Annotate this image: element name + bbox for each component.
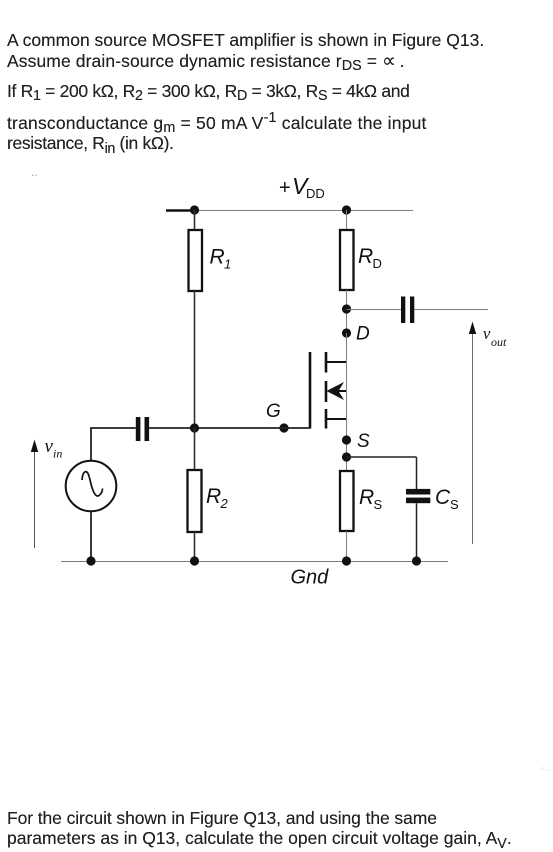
node on rail at R1 <box>190 205 199 214</box>
wire C1 to gate node <box>149 427 310 429</box>
svg-text:D: D <box>373 256 382 271</box>
wire R1 to input node <box>194 291 196 428</box>
svg-text:S: S <box>357 431 370 452</box>
capacitor C1 input <box>136 417 149 441</box>
svg-text:+: + <box>279 177 291 199</box>
vin arrowhead <box>31 440 38 453</box>
svg-text:R: R <box>206 485 221 508</box>
wire source lead to S <box>346 419 348 471</box>
resistor R1 <box>189 230 203 291</box>
ground node at CS <box>412 556 421 565</box>
ground node at R2 <box>190 556 199 565</box>
wire CS branch down <box>416 457 418 489</box>
node on rail at RD <box>342 205 351 214</box>
label CS <box>435 486 459 512</box>
svg-text:D: D <box>356 324 370 345</box>
wire RS to ground <box>346 531 348 561</box>
label vout <box>483 324 507 349</box>
wire R2 to ground <box>194 532 196 561</box>
resistor RD <box>340 230 354 290</box>
VDD rail thick left segment <box>166 209 197 211</box>
bottom text line 1 <box>7 808 437 829</box>
label vin <box>45 436 63 461</box>
wire source to ground <box>90 511 92 561</box>
question text line 4 <box>7 113 427 134</box>
svg-text:out: out <box>491 335 507 349</box>
node S <box>342 435 351 444</box>
small dots artifact <box>31 165 38 179</box>
wire S junction to CS branch <box>347 456 417 458</box>
bottom text line 2 <box>7 828 512 849</box>
VDD rail wire <box>166 210 413 212</box>
svg-text:2: 2 <box>220 496 229 511</box>
wire rail to RD <box>346 210 348 230</box>
wire node to R2 <box>194 428 196 470</box>
MOSFET body lead <box>332 390 347 392</box>
svg-text:R: R <box>210 246 225 269</box>
node output tap <box>342 304 351 313</box>
question text line 1 <box>7 30 484 51</box>
node input junction <box>190 423 199 432</box>
svg-text:C: C <box>435 486 451 509</box>
node D <box>342 328 351 337</box>
wire RD to drain <box>346 290 348 362</box>
source V1 circle <box>66 461 117 512</box>
vin arrow line <box>34 449 36 548</box>
faint page-edge mark <box>541 763 550 774</box>
svg-text:R: R <box>358 245 373 268</box>
svg-text:v: v <box>483 324 491 343</box>
label R1 <box>210 246 232 272</box>
+VDD supply label <box>279 173 325 201</box>
vout arrowhead <box>469 322 476 335</box>
question text line 3 <box>7 81 410 102</box>
node S-RS junction <box>342 452 351 461</box>
MOSFET channel segment middle <box>325 381 328 402</box>
node G <box>279 423 288 432</box>
resistor RS <box>340 471 354 531</box>
wire rail to R1 <box>194 210 196 230</box>
question text line 5 <box>7 133 174 154</box>
MOSFET source lead <box>326 418 347 420</box>
wire body to source lead <box>346 362 348 419</box>
question text line 2 <box>7 51 405 72</box>
ground node at RS <box>342 556 351 565</box>
svg-text:Gnd: Gnd <box>291 567 330 589</box>
source V1 sine <box>82 472 103 496</box>
svg-text:in: in <box>53 447 62 461</box>
MOSFET channel segment top <box>325 352 328 373</box>
ground node at source <box>86 556 95 565</box>
MOSFET body arrow <box>327 382 345 400</box>
wire CS to ground <box>416 503 418 561</box>
wire drain lead to node D <box>346 333 348 362</box>
label RD <box>358 245 382 271</box>
label RS <box>359 486 383 512</box>
svg-text:S: S <box>374 497 383 512</box>
MOSFET drain lead <box>326 361 347 363</box>
svg-text:G: G <box>266 401 281 422</box>
label R2 <box>206 485 229 511</box>
wire drain node to output capacitor <box>347 309 402 311</box>
svg-text:S: S <box>450 497 459 512</box>
capacitor CS <box>406 489 430 503</box>
MOSFET Q1 gate bar <box>309 352 312 429</box>
svg-text:1: 1 <box>224 257 231 272</box>
capacitor C2 output <box>401 297 414 324</box>
input source wire top <box>91 428 136 461</box>
wire output capacitor to out <box>414 309 488 311</box>
ground rail <box>61 561 448 563</box>
svg-text:DD: DD <box>306 186 325 201</box>
vout arrow line <box>472 331 474 544</box>
MOSFET channel segment bottom <box>325 409 328 429</box>
svg-text:R: R <box>359 486 374 509</box>
resistor R2 <box>188 470 202 532</box>
